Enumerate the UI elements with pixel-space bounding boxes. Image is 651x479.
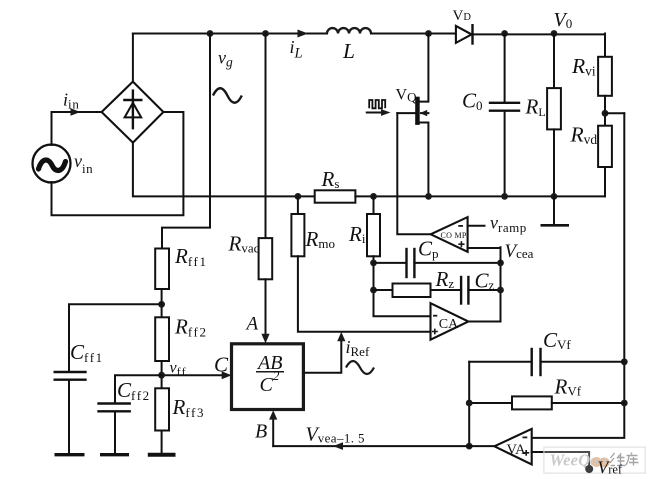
bridge rectifier bbox=[102, 82, 164, 143]
node divider tap bbox=[602, 110, 609, 117]
node MOSFET drain bbox=[425, 30, 432, 37]
wire VA feedback left vertical bbox=[468, 362, 470, 446]
svg-text:CA: CA bbox=[439, 317, 459, 332]
svg-text:C: C bbox=[214, 353, 229, 377]
svg-text:VQ: VQ bbox=[396, 87, 418, 105]
resistor Rvd bbox=[598, 126, 612, 197]
vg sine squiggle bbox=[213, 88, 242, 103]
node CVf right bbox=[621, 358, 628, 365]
wire bridge top to rail bbox=[132, 34, 134, 82]
node Cp right bbox=[497, 260, 504, 267]
op-amp CA bbox=[431, 303, 469, 340]
ground Rff3 bbox=[148, 453, 176, 457]
node vff bbox=[158, 372, 165, 379]
node Cff1 tap bbox=[158, 301, 165, 308]
arrow B input bbox=[269, 410, 277, 419]
arrow i_L bbox=[298, 30, 309, 38]
svg-text:CO MP: CO MP bbox=[441, 231, 467, 240]
wire top rail left bbox=[133, 33, 327, 35]
resistor Rvac bbox=[259, 238, 273, 343]
resistor Rff1 bbox=[155, 249, 169, 318]
capacitor Cff2 bbox=[99, 375, 162, 453]
node Cp left bbox=[370, 260, 377, 267]
node RL bottom bbox=[551, 193, 558, 200]
arrow i_in bbox=[71, 108, 81, 116]
resistor Rff3 bbox=[155, 388, 169, 453]
ground Cff1 bbox=[55, 453, 85, 456]
resistor Rz bbox=[374, 284, 462, 298]
arrow iRef bbox=[337, 332, 345, 341]
wire divider tap bbox=[605, 112, 624, 114]
node Rz left bbox=[370, 287, 377, 294]
svg-text:VA: VA bbox=[507, 442, 527, 458]
node MOSFET source bbox=[425, 193, 432, 200]
resistor Rff2 bbox=[155, 317, 169, 388]
capacitor CVf bbox=[469, 349, 624, 375]
node Ri top bbox=[370, 193, 377, 200]
arrow Vvea direction bbox=[333, 442, 343, 450]
wire gate drive from COMP bbox=[397, 113, 430, 234]
wire vramp stub bbox=[468, 225, 485, 227]
resistor RL bbox=[547, 34, 561, 197]
capacitor C0 bbox=[490, 34, 519, 197]
node Rvac tap bbox=[262, 30, 269, 37]
wire CA output bbox=[468, 321, 500, 323]
gate pulse arrow bbox=[367, 109, 391, 116]
MOSFET VQ bbox=[397, 34, 428, 197]
op-amp VA bbox=[494, 429, 531, 465]
wire return rail bbox=[355, 195, 605, 197]
capacitor Cff1 bbox=[55, 304, 162, 453]
wire feedback tap vertical bbox=[532, 113, 625, 438]
svg-text:B: B bbox=[255, 421, 267, 443]
node C0 top bbox=[501, 30, 508, 37]
arrow C input bbox=[222, 371, 232, 379]
node C0 bottom bbox=[501, 193, 508, 200]
resistor Rvi bbox=[598, 34, 612, 126]
AC source Vin bbox=[33, 145, 71, 183]
wire Ri to CA minus input bbox=[374, 256, 431, 316]
resistor Rs bbox=[315, 190, 356, 202]
svg-text:L: L bbox=[342, 39, 355, 63]
wire Rmo to CA plus input bbox=[298, 256, 431, 331]
node Rmo top bbox=[295, 193, 302, 200]
node RVf right bbox=[621, 400, 628, 407]
wire VA output Vvea line bbox=[273, 445, 494, 447]
wire Vcea vertical bbox=[500, 247, 502, 321]
wire vin bottom to bridge right bbox=[52, 112, 184, 215]
wire bridge bottom to Rs bbox=[133, 143, 315, 197]
node RL top bbox=[551, 30, 558, 37]
node vg tap bbox=[207, 30, 214, 37]
node RVf left bbox=[466, 400, 473, 407]
multiplier block AB/C2 bbox=[232, 344, 304, 410]
resistor RVf bbox=[469, 396, 624, 409]
wire Rvac sense line bbox=[265, 34, 267, 239]
comparator COMP bbox=[431, 217, 468, 252]
wire vg sense line bbox=[162, 34, 210, 249]
ground Cff2 bbox=[100, 453, 129, 456]
terminal Vref bbox=[585, 465, 593, 473]
diode VD bbox=[456, 25, 473, 43]
inductor L bbox=[327, 28, 371, 33]
wire rail to diode bbox=[371, 33, 456, 35]
capacitor Cz bbox=[461, 277, 500, 304]
wire B input bbox=[272, 414, 274, 446]
wire COMP plus input bbox=[468, 248, 501, 263]
gate pulse waveform symbol bbox=[369, 100, 385, 108]
wire vin top to bridge left bbox=[52, 112, 102, 145]
wire VA plus input to Vref bbox=[532, 452, 589, 466]
wire rail right of diode bbox=[473, 33, 606, 35]
svg-text:A: A bbox=[245, 314, 259, 335]
ground main bbox=[541, 196, 570, 225]
node VA output bbox=[466, 443, 473, 450]
resistor Rmo bbox=[291, 196, 304, 256]
wire vff to C input bbox=[162, 374, 226, 376]
wire multiplier output to iRef node bbox=[303, 336, 341, 373]
iRef sine squiggle bbox=[346, 361, 374, 374]
resistor Ri bbox=[367, 196, 380, 256]
capacitor Cp bbox=[374, 249, 501, 277]
node Cz right bbox=[497, 287, 504, 294]
watermark bbox=[544, 447, 645, 473]
